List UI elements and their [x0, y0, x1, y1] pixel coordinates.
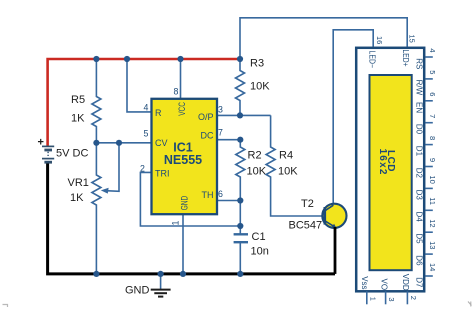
svg-text:VO: VO	[379, 279, 388, 291]
svg-text:10K: 10K	[278, 166, 298, 178]
wire +5V red rail	[48, 59, 240, 147]
svg-text:+: +	[38, 137, 44, 149]
junction node +5V rail / R3 / LED+ wire	[237, 56, 243, 62]
svg-text:13: 13	[428, 241, 437, 249]
svg-text:D0: D0	[415, 124, 424, 135]
svg-text:12: 12	[428, 219, 437, 227]
wire O/P pin3 to R3/R4	[217, 114, 271, 116]
svg-text:BC547: BC547	[289, 219, 323, 231]
svg-text:D3: D3	[415, 190, 424, 201]
pin D7 14	[426, 275, 433, 277]
svg-text:R: R	[155, 108, 162, 118]
pin D1 8	[426, 144, 433, 146]
svg-text:6: 6	[218, 189, 223, 199]
op IC1 NE555 body	[152, 99, 218, 214]
svg-text:10n: 10n	[251, 246, 269, 258]
svg-text:VR1: VR1	[68, 177, 89, 189]
pin R/W 5	[426, 78, 433, 80]
svg-text:10K: 10K	[247, 166, 267, 178]
wire battery negative to ground bus (black)	[48, 164, 335, 274]
pin D6 13	[426, 253, 433, 255]
LCD bottom pin Vss 1	[360, 276, 377, 304]
svg-text:2: 2	[140, 164, 145, 174]
junction node TH R2 bottom	[237, 197, 243, 203]
svg-text:R/W: R/W	[415, 80, 424, 96]
svg-text:C1: C1	[252, 231, 266, 243]
pin D3 10	[426, 187, 433, 189]
pin D4 11	[426, 209, 433, 211]
svg-text:TH: TH	[202, 190, 214, 200]
svg-text:7: 7	[218, 128, 223, 138]
svg-text:RS: RS	[415, 58, 424, 69]
svg-text:5V DC: 5V DC	[56, 148, 88, 160]
wire LED+ rail to LCD pin15	[240, 18, 407, 59]
svg-text:5: 5	[144, 129, 149, 139]
svg-text:T2: T2	[301, 198, 314, 210]
resistor R4 10K	[266, 115, 326, 216]
pin D2 9	[426, 166, 433, 168]
LCD bottom pin VO 3	[379, 279, 396, 305]
svg-text:7: 7	[428, 114, 437, 118]
wire T2 collector to LCD pin16	[333, 30, 373, 205]
svg-text:11: 11	[428, 197, 437, 205]
LCD pin15 stub + label LED+	[401, 35, 417, 67]
junction node wiper/CV	[116, 140, 122, 146]
svg-text:4: 4	[144, 103, 149, 113]
svg-text:R5: R5	[71, 94, 85, 106]
svg-text:16: 16	[375, 36, 384, 44]
LCD module outer box	[356, 48, 424, 291]
svg-text:R3: R3	[250, 58, 264, 70]
svg-text:Vss: Vss	[360, 276, 369, 289]
LCD 16x2 display area	[370, 75, 412, 270]
svg-text:EN: EN	[415, 102, 424, 113]
wire TRI pin2 loop to C1 top	[140, 172, 240, 226]
svg-text:1: 1	[171, 221, 181, 226]
wire GND pin1 stub	[182, 214, 184, 274]
resistor R3 10K	[236, 58, 271, 116]
svg-text:1: 1	[368, 297, 377, 301]
svg-text:1K: 1K	[70, 192, 84, 204]
pin RS 4	[426, 56, 433, 58]
LCD pin16 stub + label LED-	[368, 36, 384, 68]
svg-text:VCC: VCC	[177, 102, 187, 116]
wire VCC pin8 stub	[180, 59, 182, 99]
svg-text:VDD: VDD	[401, 274, 410, 291]
svg-text:4: 4	[428, 48, 437, 52]
svg-text:3: 3	[387, 297, 396, 301]
junction node R5/VR1/CV	[93, 140, 99, 146]
svg-text:2: 2	[409, 296, 418, 300]
junction node O/P R3 bottom	[237, 112, 243, 118]
svg-text:3: 3	[218, 105, 223, 115]
svg-text:8: 8	[428, 136, 437, 140]
LCD bottom pin VDD 2	[401, 274, 418, 305]
svg-text:DC: DC	[201, 131, 214, 141]
svg-text:D5: D5	[415, 233, 424, 244]
svg-text:TRI: TRI	[155, 168, 170, 178]
pin D0 7	[426, 122, 433, 124]
svg-text:6: 6	[428, 92, 437, 96]
svg-text:D1: D1	[415, 146, 424, 157]
svg-text:LED+: LED+	[401, 50, 410, 67]
svg-text:5: 5	[428, 70, 437, 74]
LCD right-side pins 4..14	[415, 48, 437, 288]
wire TH pin6 to R2 bottom	[217, 200, 240, 202]
svg-text:D4: D4	[415, 212, 424, 223]
junction node bus C1	[237, 271, 243, 277]
potentiometer VR1 1K	[68, 143, 120, 274]
ground GND symbol	[125, 274, 171, 297]
svg-text:D7: D7	[415, 277, 424, 288]
svg-text:8: 8	[174, 87, 179, 97]
junction node bus GND symbol	[158, 271, 164, 277]
wire R pin4 from +5V rail	[127, 59, 152, 112]
wire CV pin5 from R5/VR1 node	[96, 142, 151, 144]
page artifact bottom-right	[468, 302, 472, 307]
svg-text:R2: R2	[248, 150, 262, 162]
wire DC pin7 to R2 top	[217, 139, 240, 141]
svg-text:GND: GND	[180, 195, 190, 210]
junction node DC R2 top	[237, 137, 243, 143]
capacitor C1 10n	[234, 201, 269, 274]
pin D5 12	[426, 231, 433, 233]
svg-text:D2: D2	[415, 168, 424, 179]
resistor R5 1K	[71, 59, 101, 143]
pin EN 6	[426, 100, 433, 102]
svg-text:R4: R4	[279, 150, 293, 162]
svg-text:GND: GND	[125, 285, 150, 297]
svg-text:LED−: LED−	[368, 51, 377, 69]
junction node on +5V rail at R5	[93, 56, 99, 62]
junction node on +5V rail at pin4 wire	[124, 56, 130, 62]
transistor T2 BC547	[289, 198, 347, 232]
svg-text:10: 10	[428, 175, 437, 183]
svg-text:16x2: 16x2	[377, 149, 388, 175]
junction node bus VR1	[93, 271, 99, 277]
svg-text:15: 15	[408, 35, 417, 43]
svg-text:14: 14	[428, 263, 437, 271]
svg-text:CV: CV	[155, 138, 168, 148]
svg-text:9: 9	[428, 158, 437, 162]
junction node on +5V rail at VCC stub	[177, 56, 183, 62]
svg-text:NE555: NE555	[164, 153, 202, 167]
junction node TRI C1 top	[237, 223, 243, 229]
svg-text:O/P: O/P	[198, 112, 214, 122]
svg-text:10K: 10K	[250, 81, 270, 93]
page artifact bottom-left	[3, 305, 8, 308]
svg-text:D6: D6	[415, 255, 424, 266]
svg-text:1K: 1K	[71, 113, 85, 125]
junction node bus IC pin1	[180, 271, 186, 277]
wire T2 emitter to ground bus (black)	[334, 227, 337, 274]
resistor R2 10K	[236, 140, 267, 201]
battery BATT 5V DC	[38, 137, 89, 163]
